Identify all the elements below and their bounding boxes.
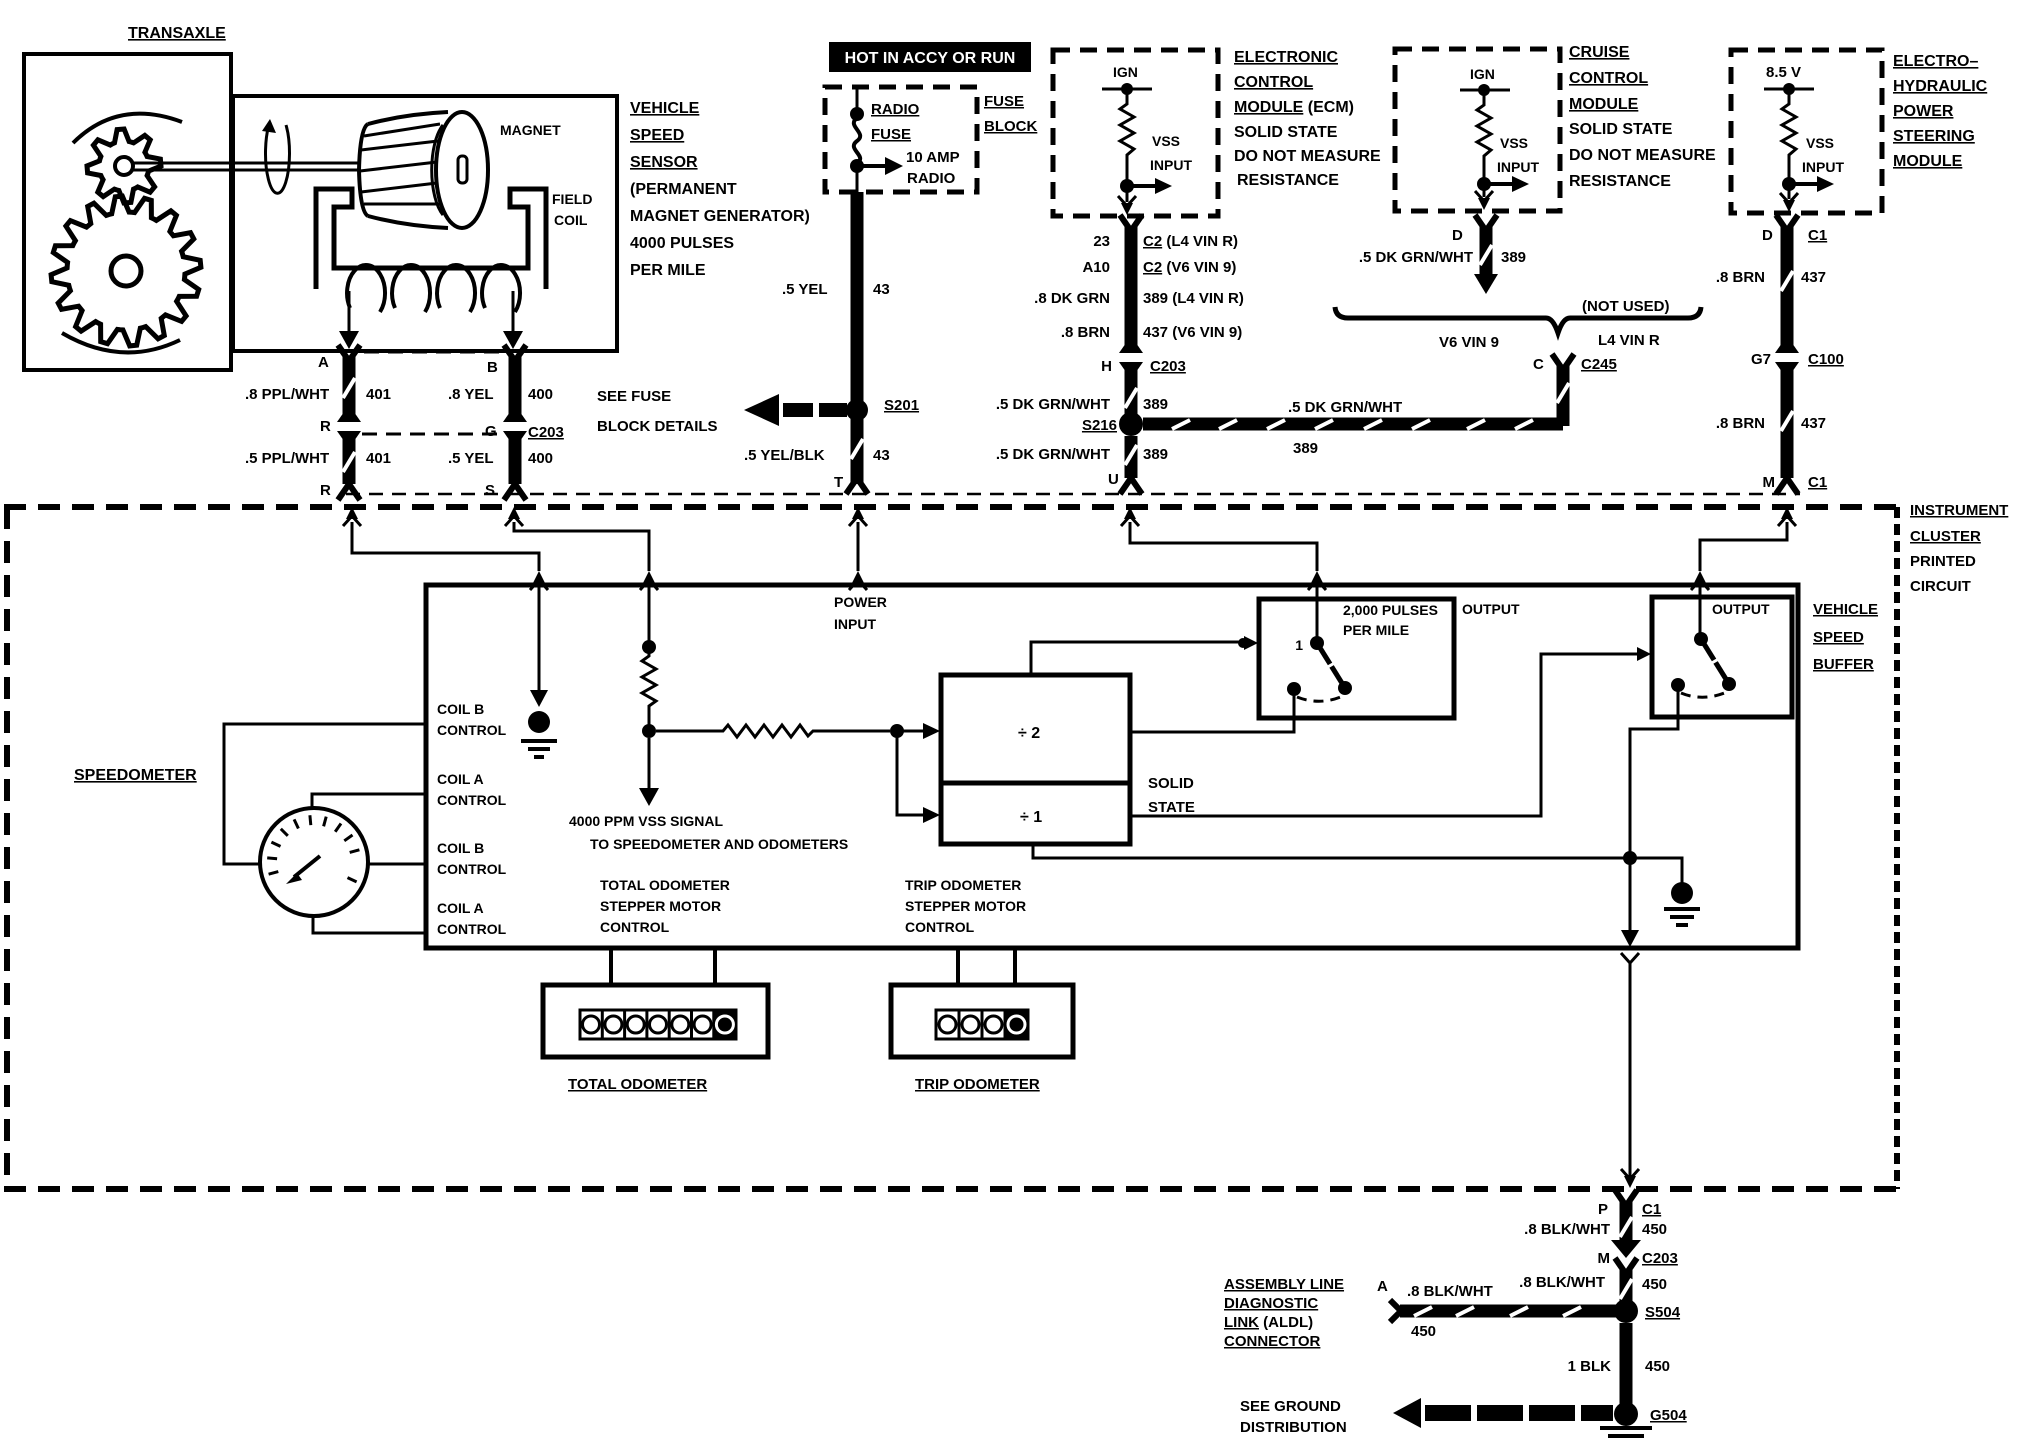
connector C100 pin G7 xyxy=(1775,343,1799,353)
splice S504 xyxy=(1614,1299,1638,1323)
wire power input xyxy=(849,507,867,526)
svg-text:CONTROL: CONTROL xyxy=(437,921,507,937)
wire pin S to speedometer xyxy=(505,507,523,526)
svg-text:VSS: VSS xyxy=(1152,133,1180,149)
svg-text:T: T xyxy=(834,474,843,491)
wire gauge top xyxy=(312,794,426,810)
wire 401 upper (.8 PPL/WHT) pin A xyxy=(338,345,360,361)
coil lead A arrow xyxy=(348,291,351,337)
svg-text:RADIO: RADIO xyxy=(907,170,956,187)
svg-text:HYDRAULIC: HYDRAULIC xyxy=(1893,78,1988,95)
divider by2 output wire xyxy=(1130,694,1294,732)
svg-text:CIRCUIT: CIRCUIT xyxy=(1910,578,1971,595)
svg-text:MODULE (ECM): MODULE (ECM) xyxy=(1234,99,1354,116)
svg-text:TOTAL ODOMETER: TOTAL ODOMETER xyxy=(568,1076,707,1093)
CRUISE dashed box xyxy=(1395,49,1560,211)
svg-text:STEPPER MOTOR: STEPPER MOTOR xyxy=(905,898,1026,914)
connector C203 pin M xyxy=(1611,1240,1641,1258)
coil lead B arrow xyxy=(512,291,515,337)
svg-text:RESISTANCE: RESISTANCE xyxy=(1237,172,1339,189)
svg-text:SENSOR: SENSOR xyxy=(630,154,698,171)
svg-text:FUSE: FUSE xyxy=(984,93,1024,110)
svg-text:.5 PPL/WHT: .5 PPL/WHT xyxy=(245,450,329,467)
connector dashed outline top segment xyxy=(364,351,502,354)
splice S216 xyxy=(1119,412,1143,436)
svg-text:VSS: VSS xyxy=(1500,135,1528,151)
series resistor to divider xyxy=(656,725,890,737)
dashed arrow to fuse block details xyxy=(744,394,779,426)
svg-text:CONTROL: CONTROL xyxy=(600,919,670,935)
wire gauge bottom xyxy=(313,914,426,933)
junction node xyxy=(890,724,904,738)
field coil winding xyxy=(347,265,520,312)
svg-text:FIELD: FIELD xyxy=(552,191,592,207)
wire 389 to pin U xyxy=(1125,436,1138,478)
cruise connector pin D xyxy=(1475,215,1497,231)
svg-text:INPUT: INPUT xyxy=(834,616,876,632)
ECM VSS INPUT node xyxy=(1120,179,1134,193)
svg-text:.5 DK GRN/WHT: .5 DK GRN/WHT xyxy=(1359,249,1473,266)
svg-text:.8 BRN: .8 BRN xyxy=(1716,269,1765,286)
wire 43 (.5 YEL/BLK) pin T xyxy=(851,416,864,484)
connector C1 pin M xyxy=(1776,478,1798,494)
connector C245 pin C xyxy=(1557,366,1570,426)
svg-text:389: 389 xyxy=(1143,446,1168,463)
svg-text:G504: G504 xyxy=(1650,1407,1687,1424)
svg-text:.5 DK GRN/WHT: .5 DK GRN/WHT xyxy=(1288,399,1402,416)
svg-text:M: M xyxy=(1598,1250,1611,1267)
svg-text:COIL A: COIL A xyxy=(437,900,484,916)
svg-text:VSS: VSS xyxy=(1806,135,1834,151)
svg-text:÷ 2: ÷ 2 xyxy=(1018,725,1040,742)
svg-text:43: 43 xyxy=(873,281,890,298)
svg-text:MAGNET GENERATOR): MAGNET GENERATOR) xyxy=(630,208,810,225)
svg-text:450: 450 xyxy=(1645,1358,1670,1375)
svg-text:389: 389 xyxy=(1501,249,1526,266)
ALDL wire .8 BLK/WHT 450 xyxy=(1400,1305,1616,1318)
connector dashed outline middle segment xyxy=(362,433,498,436)
rotation arc below large gear xyxy=(62,333,180,352)
svg-text:TOTAL ODOMETER: TOTAL ODOMETER xyxy=(600,877,730,893)
svg-text:TRANSAXLE: TRANSAXLE xyxy=(128,25,226,42)
svg-text:.5 YEL/BLK: .5 YEL/BLK xyxy=(744,447,825,464)
svg-text:.5 DK GRN/WHT: .5 DK GRN/WHT xyxy=(996,446,1110,463)
svg-text:RESISTANCE: RESISTANCE xyxy=(1569,173,1671,190)
speedometer gauge dial xyxy=(260,808,368,916)
svg-text:LINK (ALDL): LINK (ALDL) xyxy=(1224,1314,1313,1331)
svg-text:CONTROL: CONTROL xyxy=(437,722,507,738)
banner HOT IN ACCY OR RUN xyxy=(829,42,1031,72)
svg-text:L4 VIN R: L4 VIN R xyxy=(1598,332,1660,349)
svg-text:G: G xyxy=(485,423,497,440)
svg-text:389: 389 xyxy=(1293,440,1318,457)
junction to ground xyxy=(1623,851,1637,865)
wire coil B loop left xyxy=(224,724,426,864)
wire pin R to coil ground xyxy=(343,507,361,526)
svg-text:SOLID: SOLID xyxy=(1148,775,1194,792)
svg-text:.8 DK GRN: .8 DK GRN xyxy=(1034,290,1110,307)
svg-text:POWER: POWER xyxy=(834,594,887,610)
svg-text:.8 BLK/WHT: .8 BLK/WHT xyxy=(1519,1274,1605,1291)
svg-text:.8 BRN: .8 BRN xyxy=(1716,415,1765,432)
svg-text:.8 BRN: .8 BRN xyxy=(1061,324,1110,341)
connector C203 pin H xyxy=(1119,343,1143,353)
svg-text:COIL B: COIL B xyxy=(437,840,484,856)
svg-text:R: R xyxy=(320,482,331,499)
svg-text:450: 450 xyxy=(1642,1276,1667,1293)
rotation arc above small gear xyxy=(73,114,182,143)
svg-text:SEE FUSE: SEE FUSE xyxy=(597,388,671,405)
svg-text:S201: S201 xyxy=(884,397,919,414)
svg-text:23: 23 xyxy=(1093,233,1110,250)
svg-text:DO NOT MEASURE: DO NOT MEASURE xyxy=(1569,147,1716,164)
svg-text:ELECTRO–: ELECTRO– xyxy=(1893,53,1978,70)
svg-text:CLUSTER: CLUSTER xyxy=(1910,528,1981,545)
svg-text:CONTROL: CONTROL xyxy=(437,792,507,808)
svg-text:A: A xyxy=(318,354,329,371)
ground symbol buffer xyxy=(1671,882,1693,904)
svg-text:B: B xyxy=(487,359,498,376)
small drive gear xyxy=(87,129,161,203)
svg-text:IGN: IGN xyxy=(1113,64,1138,80)
svg-text:U: U xyxy=(1108,471,1119,488)
svg-text:450: 450 xyxy=(1642,1221,1667,1238)
svg-text:437 (V6 VIN 9): 437 (V6 VIN 9) xyxy=(1143,324,1242,341)
svg-text:(PERMANENT: (PERMANENT xyxy=(630,181,737,198)
vehicle speed sensor box xyxy=(233,96,617,351)
svg-text:FUSE: FUSE xyxy=(871,126,911,143)
svg-text:INPUT: INPUT xyxy=(1150,157,1192,173)
svg-text:BLOCK DETAILS: BLOCK DETAILS xyxy=(597,418,718,435)
wire pin U to 2000ppm switch xyxy=(1121,507,1139,526)
EHPS internal resistor xyxy=(1782,89,1796,178)
svg-text:VEHICLE: VEHICLE xyxy=(630,100,700,117)
svg-text:÷ 1: ÷ 1 xyxy=(1020,809,1042,826)
large gear hub hole xyxy=(111,256,141,286)
svg-text:SPEEDOMETER: SPEEDOMETER xyxy=(74,767,197,784)
svg-text:400: 400 xyxy=(528,450,553,467)
svg-text:CONNECTOR: CONNECTOR xyxy=(1224,1333,1321,1350)
svg-text:1: 1 xyxy=(1295,637,1303,653)
EHPS dashed box xyxy=(1731,50,1882,213)
svg-text:STEERING: STEERING xyxy=(1893,128,1975,145)
svg-text:.5 DK GRN/WHT: .5 DK GRN/WHT xyxy=(996,396,1110,413)
svg-text:SOLID STATE: SOLID STATE xyxy=(1234,124,1338,141)
svg-text:VEHICLE: VEHICLE xyxy=(1813,601,1878,618)
instrument cluster dashed border xyxy=(4,504,1897,510)
svg-text:C203: C203 xyxy=(1150,358,1186,375)
wire 450 to S504 xyxy=(1620,1270,1633,1304)
svg-text:STEPPER MOTOR: STEPPER MOTOR xyxy=(600,898,721,914)
svg-text:43: 43 xyxy=(873,447,890,464)
svg-text:D: D xyxy=(1762,227,1773,244)
svg-text:CONTROL: CONTROL xyxy=(437,861,507,877)
total odometer wires xyxy=(611,948,715,985)
svg-text:DIAGNOSTIC: DIAGNOSTIC xyxy=(1224,1295,1318,1312)
svg-text:S: S xyxy=(485,482,495,499)
wire gauge right xyxy=(368,863,426,866)
svg-text:C203: C203 xyxy=(1642,1250,1678,1267)
wire 400 upper (.8 YEL) pin B xyxy=(504,345,526,361)
speedometer circuit box xyxy=(426,585,1798,948)
svg-text:SOLID STATE: SOLID STATE xyxy=(1569,121,1673,138)
EHPS VSS INPUT node xyxy=(1782,177,1796,191)
ECM connector pin 23/A10 xyxy=(1120,215,1142,231)
transaxle enclosure box xyxy=(24,54,231,370)
svg-text:CONTROL: CONTROL xyxy=(1234,74,1313,91)
svg-text:389: 389 xyxy=(1143,396,1168,413)
trip odometer wires xyxy=(958,948,1015,985)
svg-text:CONTROL: CONTROL xyxy=(905,919,975,935)
radio fuse element xyxy=(856,89,859,112)
svg-text:SEE GROUND: SEE GROUND xyxy=(1240,1398,1341,1415)
shaft rotation ellipse xyxy=(265,122,289,193)
svg-text:H: H xyxy=(1101,358,1112,375)
buffer switch box xyxy=(1652,597,1792,717)
field coil core xyxy=(316,189,546,289)
svg-text:SPEED: SPEED xyxy=(1813,629,1864,646)
wire 400 lower (.5 YEL) pin S connector C203 xyxy=(503,431,527,441)
ground symbol in speedometer xyxy=(528,711,550,733)
svg-text:INPUT: INPUT xyxy=(1497,159,1539,175)
svg-text:DO NOT MEASURE: DO NOT MEASURE xyxy=(1234,148,1381,165)
svg-text:SPEED: SPEED xyxy=(630,127,684,144)
svg-text:HOT IN ACCY OR RUN: HOT IN ACCY OR RUN xyxy=(845,50,1016,67)
ECM dashed box xyxy=(1053,50,1218,216)
brace V6 VIN 9 / L4 VIN R xyxy=(1335,307,1701,333)
svg-text:PER MILE: PER MILE xyxy=(630,262,706,279)
switch1 xyxy=(1310,636,1324,650)
ECM internal resistor xyxy=(1120,89,1134,180)
svg-text:C2 (V6 VIN 9): C2 (V6 VIN 9) xyxy=(1143,259,1236,276)
svg-text:D: D xyxy=(1452,227,1463,244)
svg-text:OUTPUT: OUTPUT xyxy=(1462,601,1520,617)
svg-text:C2 (L4 VIN R): C2 (L4 VIN R) xyxy=(1143,233,1238,250)
svg-text:C1: C1 xyxy=(1808,474,1827,491)
svg-text:MODULE: MODULE xyxy=(1893,153,1963,170)
svg-text:G7: G7 xyxy=(1751,351,1771,368)
cruise internal resistor xyxy=(1477,90,1491,178)
svg-text:ASSEMBLY LINE: ASSEMBLY LINE xyxy=(1224,1276,1344,1293)
svg-text:C100: C100 xyxy=(1808,351,1844,368)
svg-text:P: P xyxy=(1598,1201,1608,1218)
svg-text:437: 437 xyxy=(1801,269,1826,286)
ground G504 xyxy=(1614,1402,1638,1426)
svg-text:PRINTED: PRINTED xyxy=(1910,553,1976,570)
svg-text:INPUT: INPUT xyxy=(1802,159,1844,175)
dashed wire to ground distribution xyxy=(1393,1398,1421,1428)
svg-text:M: M xyxy=(1763,474,1776,491)
sensor drive shaft xyxy=(131,163,360,170)
svg-text:BLOCK: BLOCK xyxy=(984,118,1037,135)
svg-text:400: 400 xyxy=(528,386,553,403)
magnet rotor cylinder xyxy=(359,112,488,228)
VSS signal wire with resistor xyxy=(648,585,651,641)
svg-text:401: 401 xyxy=(366,450,391,467)
svg-text:TO SPEEDOMETER AND ODOMETERS: TO SPEEDOMETER AND ODOMETERS xyxy=(590,836,848,852)
svg-text:.8 YEL: .8 YEL xyxy=(448,386,494,403)
svg-text:10 AMP: 10 AMP xyxy=(906,149,960,166)
svg-text:C1: C1 xyxy=(1808,227,1827,244)
svg-text:MODULE: MODULE xyxy=(1569,96,1639,113)
svg-text:TRIP ODOMETER: TRIP ODOMETER xyxy=(915,1076,1040,1093)
total odometer box xyxy=(543,985,768,1057)
svg-text:2,000 PULSES: 2,000 PULSES xyxy=(1343,602,1438,618)
svg-text:RADIO: RADIO xyxy=(871,101,920,118)
EHPS connector pin D C1 xyxy=(1776,215,1798,231)
large driven gear xyxy=(51,196,201,346)
svg-text:S504: S504 xyxy=(1645,1304,1681,1321)
svg-text:401: 401 xyxy=(366,386,391,403)
svg-text:1 BLK: 1 BLK xyxy=(1568,1358,1612,1375)
svg-text:450: 450 xyxy=(1411,1323,1436,1340)
wire pin M to buffer switch xyxy=(1778,507,1796,526)
connector C1 pin P xyxy=(1615,1190,1637,1206)
svg-text:C: C xyxy=(1533,356,1544,373)
svg-text:POWER: POWER xyxy=(1893,103,1954,120)
switch2 output wire down xyxy=(1630,690,1678,852)
svg-text:S216: S216 xyxy=(1082,417,1117,434)
fuse block dashed box xyxy=(825,87,977,192)
svg-text:4000 PULSES: 4000 PULSES xyxy=(630,235,734,252)
wire 43 (.5 YEL) fuse feed xyxy=(851,192,864,404)
svg-text:.5 YEL: .5 YEL xyxy=(782,281,828,298)
coil ground wire xyxy=(538,585,541,698)
svg-text:COIL A: COIL A xyxy=(437,771,484,787)
ECM output arrow through box xyxy=(1126,186,1129,202)
svg-text:(NOT USED): (NOT USED) xyxy=(1582,298,1670,315)
switch1 pole wire xyxy=(1316,585,1319,637)
trip odometer digits xyxy=(936,1010,1028,1039)
svg-text:CONTROL: CONTROL xyxy=(1569,70,1648,87)
svg-text:A10: A10 xyxy=(1082,259,1110,276)
svg-text:.8 BLK/WHT: .8 BLK/WHT xyxy=(1407,1283,1493,1300)
svg-text:8.5 V: 8.5 V xyxy=(1766,64,1801,81)
svg-text:R: R xyxy=(320,418,331,435)
svg-text:V6 VIN 9: V6 VIN 9 xyxy=(1439,334,1499,351)
svg-text:COIL: COIL xyxy=(554,212,588,228)
2000 ppm switch box xyxy=(1259,599,1454,718)
wire 450 (1 BLK) xyxy=(1620,1323,1633,1405)
svg-text:TRIP ODOMETER: TRIP ODOMETER xyxy=(905,877,1021,893)
svg-text:OUTPUT: OUTPUT xyxy=(1712,601,1770,617)
svg-text:MAGNET: MAGNET xyxy=(500,122,561,138)
cruise VSS INPUT node xyxy=(1477,177,1491,191)
svg-text:C245: C245 xyxy=(1581,356,1617,373)
svg-text:COIL B: COIL B xyxy=(437,701,484,717)
svg-text:IGN: IGN xyxy=(1470,66,1495,82)
cluster connector row thin dashed line xyxy=(346,493,1800,496)
buffer output wire to cluster pin xyxy=(1629,864,1632,936)
svg-text:437: 437 xyxy=(1801,415,1826,432)
svg-text:CRUISE: CRUISE xyxy=(1569,44,1630,61)
divider by1 output wire xyxy=(1130,654,1637,816)
svg-text:DISTRIBUTION: DISTRIBUTION xyxy=(1240,1419,1347,1436)
svg-text:.8 BLK/WHT: .8 BLK/WHT xyxy=(1524,1221,1610,1238)
small gear hub xyxy=(115,157,133,175)
divider block xyxy=(941,675,1130,844)
wire 389 splice S216 to C245 xyxy=(1143,418,1563,431)
svg-text:ELECTRONIC: ELECTRONIC xyxy=(1234,49,1338,66)
svg-text:STATE: STATE xyxy=(1148,799,1195,816)
splice S201 xyxy=(846,399,868,421)
switch2 xyxy=(1694,632,1708,646)
svg-text:4000 PPM VSS SIGNAL: 4000 PPM VSS SIGNAL xyxy=(569,813,724,829)
switch2 pole wire xyxy=(1699,585,1702,633)
svg-text:C1: C1 xyxy=(1642,1201,1661,1218)
svg-text:A: A xyxy=(1377,1278,1388,1295)
svg-text:C203: C203 xyxy=(528,424,564,441)
svg-text:BUFFER: BUFFER xyxy=(1813,656,1874,673)
divider bottom output wire xyxy=(1033,844,1624,858)
trip odometer box xyxy=(891,985,1073,1057)
svg-text:389 (L4 VIN R): 389 (L4 VIN R) xyxy=(1143,290,1244,307)
gauge needle xyxy=(294,856,320,877)
svg-text:INSTRUMENT: INSTRUMENT xyxy=(1910,502,2008,519)
wire 401 lower (.5 PPL/WHT) pin R xyxy=(337,431,361,441)
svg-text:.8 PPL/WHT: .8 PPL/WHT xyxy=(245,386,329,403)
total odometer digits xyxy=(580,1010,736,1039)
divider top output wire xyxy=(1031,642,1240,675)
svg-text:PER MILE: PER MILE xyxy=(1343,622,1409,638)
svg-text:.5 YEL: .5 YEL xyxy=(448,450,494,467)
